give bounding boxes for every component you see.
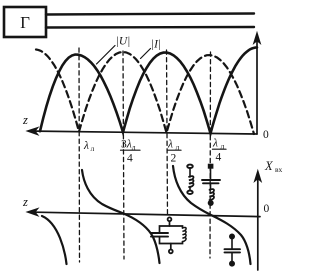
Xвх curve branch left of λл <box>42 216 67 264</box>
svg-text:4: 4 <box>127 153 133 165</box>
Xвх axis with label and 0 <box>254 159 282 270</box>
node λл/2 dashed line <box>167 50 168 217</box>
svg-text:0: 0 <box>263 129 269 141</box>
svg-text:z: z <box>22 195 28 209</box>
series resonant circuit C1 L2 at λл/4 <box>202 165 220 206</box>
svg-text:вх: вх <box>275 165 283 174</box>
Xвх curve branch between λл/2 and 0 <box>173 166 251 264</box>
label |U| with leader <box>97 36 131 65</box>
Xвх curve branch between λл and λл/2 <box>82 170 160 263</box>
svg-text:z: z <box>22 113 28 127</box>
label λл/2 <box>167 139 181 165</box>
amplitude axis (upper plot) with 0 <box>254 33 269 142</box>
curve |U| standing wave of voltage <box>40 48 257 134</box>
label 3λл/4 <box>121 139 141 165</box>
z axis (upper plot) <box>22 113 257 135</box>
svg-text:л: л <box>91 144 95 153</box>
capacitor C2 (capacitive region) <box>225 234 241 265</box>
svg-text:Г: Г <box>20 13 30 32</box>
svg-text:λ: λ <box>83 140 89 152</box>
inductor L1 (equivalent circuit, inductive region) <box>187 165 193 194</box>
parallel resonant circuit LC at λл/2 <box>151 217 186 253</box>
node λл/4 dashed line <box>209 52 212 258</box>
svg-text:4: 4 <box>216 152 222 164</box>
curve |I| standing wave of current (dashed) <box>36 50 254 135</box>
svg-text:λ: λ <box>212 138 218 150</box>
wire bottom conductor of two-wire line <box>46 26 254 29</box>
svg-text:X: X <box>264 159 274 173</box>
svg-text:0: 0 <box>264 203 270 215</box>
wire top conductor of two-wire line <box>46 14 254 15</box>
generator Г <box>4 7 46 37</box>
svg-text:|U|: |U| <box>116 36 131 48</box>
svg-text:2: 2 <box>171 153 177 165</box>
z axis (lower plot) <box>22 195 260 217</box>
label λл <box>83 140 95 153</box>
svg-text:|I|: |I| <box>151 39 161 51</box>
node 3λл/4 dashed line <box>123 51 124 259</box>
label |I| with leader <box>141 39 162 59</box>
label λл/4 <box>212 138 226 164</box>
node λл dashed line <box>78 48 81 262</box>
svg-text:λ: λ <box>167 139 173 151</box>
